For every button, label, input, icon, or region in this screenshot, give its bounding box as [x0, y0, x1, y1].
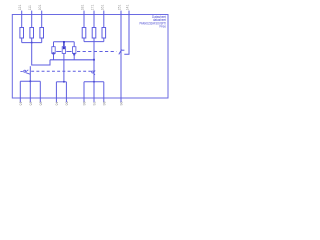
- pin stub top 5: [93, 11, 95, 15]
- bottom pin 6 label: [82, 102, 86, 106]
- pin stub top 1: [21, 11, 23, 15]
- pin stub bottom 4: [55, 98, 57, 102]
- node mid bar: [63, 81, 65, 83]
- pin stub bottom 5: [65, 98, 67, 102]
- node group1: [31, 42, 33, 44]
- top pin 3 label: [38, 5, 42, 11]
- cell top bus: [54, 41, 75, 43]
- dashed base line 2: [31, 70, 90, 72]
- wire right bar pin c: [103, 82, 105, 98]
- svg-text:76: 76: [92, 102, 96, 106]
- diode D2 dot: [63, 47, 65, 49]
- wire pin1 to R1: [21, 15, 23, 28]
- svg-text:151: 151: [118, 5, 122, 11]
- pin stub bottom 9: [120, 98, 122, 102]
- wire left bar pin c: [39, 81, 41, 98]
- pin stub top 2: [31, 11, 33, 15]
- wire pin4 to R4: [83, 15, 85, 28]
- pin stub top 6: [103, 11, 105, 15]
- bus group1: [22, 42, 42, 44]
- diode D3 dot: [73, 53, 75, 56]
- pin stub bottom 3: [39, 98, 41, 102]
- bottom pin 5 label: [65, 102, 69, 106]
- diode D3: [73, 47, 76, 54]
- svg-text:86: 86: [102, 102, 106, 106]
- svg-text:101: 101: [38, 5, 42, 11]
- svg-text:56: 56: [65, 102, 69, 106]
- wire right bar pin b: [93, 82, 95, 98]
- diode D2 lead bottom: [63, 53, 65, 59]
- IC outline box: [12, 15, 168, 99]
- top pin 8 label: [126, 5, 130, 11]
- transistor QR stub: [121, 49, 124, 51]
- diode D1 lead top: [53, 42, 55, 47]
- svg-text:121: 121: [18, 5, 22, 11]
- transistor Q1: [20, 71, 22, 73]
- watermark text block: [140, 15, 167, 29]
- resistor R1: [20, 28, 24, 39]
- top pin 6 label: [100, 5, 104, 11]
- pin stub top 3: [41, 11, 43, 15]
- pin stub top 4: [83, 11, 85, 15]
- svg-text:171: 171: [91, 5, 95, 11]
- wire left bar pin b: [29, 81, 31, 98]
- wire R4 bottom: [83, 38, 85, 42]
- left bar: [20, 80, 40, 82]
- wire group1 drop: [32, 43, 50, 65]
- transistor QR emitter diagonal: [119, 50, 122, 55]
- bottom pin 1 label: [18, 102, 22, 106]
- wire group2 drop: [93, 42, 95, 68]
- resistor R3: [40, 28, 44, 39]
- resistor R2: [30, 28, 34, 39]
- bottom pin 9 label: [119, 102, 123, 106]
- bottom pin 7 label: [92, 102, 96, 106]
- svg-text:181: 181: [81, 5, 85, 11]
- wire right bar pin a: [83, 82, 85, 98]
- bottom pin 2 label: [28, 102, 32, 106]
- diode D1 lead bottom: [53, 53, 55, 59]
- wire pin7 vertical: [120, 15, 122, 99]
- resistor R4: [82, 28, 86, 39]
- bottom pin 3 label: [38, 102, 42, 106]
- top pin 2 label: [28, 5, 32, 10]
- top pin 1 label: [18, 5, 22, 11]
- wire R1 bottom: [21, 38, 23, 43]
- svg-text:66: 66: [82, 102, 86, 106]
- bottom pin 8 label: [102, 102, 106, 106]
- bottom pin 4 label: [55, 102, 59, 106]
- svg-text:111: 111: [28, 5, 32, 10]
- svg-text:46: 46: [55, 102, 59, 106]
- svg-text:26: 26: [28, 102, 32, 106]
- wire mid bar pin a: [55, 82, 57, 98]
- resistor R5: [92, 28, 96, 39]
- svg-text:36: 36: [38, 102, 42, 106]
- wire pin3 to R3: [41, 15, 43, 28]
- top pin 5 label: [91, 5, 95, 11]
- node cell bottom right: [93, 59, 95, 61]
- wire pin2 to R2: [31, 15, 33, 28]
- diode D1 dot: [53, 52, 55, 54]
- pin stub bottom 7: [93, 98, 95, 102]
- svg-text:Free: Free: [160, 25, 167, 29]
- wire pin6 to R6: [103, 15, 105, 28]
- wire mid bar pin b: [65, 82, 67, 98]
- wire pin8 vertical: [124, 15, 129, 55]
- top pin labels: [18, 5, 129, 11]
- pin stub bottom 2: [29, 98, 31, 102]
- wire left bar pin a: [19, 81, 21, 98]
- cell bottom bus: [50, 59, 94, 61]
- pin stub bottom 6: [83, 98, 85, 102]
- mid bar: [56, 81, 66, 83]
- pin stub bottom 8: [103, 98, 105, 102]
- node cell top: [63, 41, 65, 43]
- dashed base line 1: [56, 51, 61, 53]
- bottom pin labels: [18, 102, 123, 106]
- wire R6 bottom: [103, 38, 105, 42]
- node right bar: [93, 81, 95, 83]
- pin stub bottom 1: [19, 98, 21, 102]
- top pin 4 label: [81, 5, 85, 11]
- diode D3 lead top: [73, 42, 75, 47]
- resistor R6: [102, 28, 106, 39]
- diode D2: [62, 47, 65, 54]
- bus group2: [84, 41, 104, 43]
- svg-text:141: 141: [126, 5, 130, 11]
- transistor Q2 emitter wire: [93, 68, 95, 82]
- transistor Q1 emitter wire: [29, 66, 31, 81]
- wire pin5 to R5: [93, 15, 95, 28]
- top pin 7 label: [118, 5, 122, 11]
- diode D3 lead bottom: [73, 53, 75, 59]
- wire R2 bottom: [31, 38, 33, 43]
- diode D1: [52, 47, 55, 54]
- right bar: [84, 81, 104, 83]
- svg-text:96: 96: [119, 102, 123, 106]
- pin stub top 8: [128, 11, 130, 15]
- svg-text:16: 16: [18, 102, 22, 106]
- pin stub top 7: [120, 11, 122, 15]
- transistor Q2: [91, 70, 92, 72]
- node left bar: [30, 81, 32, 83]
- wire R5 bottom: [93, 38, 95, 42]
- diode D2 lead top: [63, 42, 65, 47]
- svg-text:161: 161: [100, 5, 104, 11]
- wire R3 bottom: [41, 38, 43, 43]
- wire cell to mid bar: [63, 60, 65, 82]
